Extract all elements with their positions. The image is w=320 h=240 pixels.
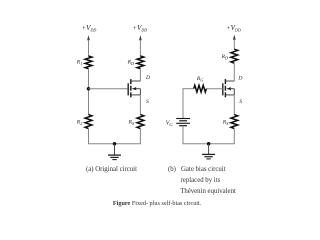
resistor RD (a) [137,56,144,69]
svg-text:D: D [145,75,150,81]
wire R1 to R2 [88,69,90,115]
svg-text:(b): (b) [168,166,176,173]
svg-text:RD: RD [127,59,134,66]
wire RS to rail [139,129,141,144]
svg-text:S: S [239,99,242,105]
svg-text:D: D [237,76,242,82]
svg-text:Thévenin equivalent: Thévenin equivalent [180,188,236,195]
transistor M2 [223,79,235,97]
resistor R1 [85,56,92,69]
svg-text:R1: R1 [76,59,83,66]
resistor RS (b) [231,115,238,129]
svg-text:RS: RS [222,119,229,126]
supply arrow (a) left [87,35,90,40]
wire bottom rail (a) [88,143,141,145]
svg-text:S: S [146,99,149,105]
supply arrow (b) [233,35,236,40]
svg-text:replaced by its: replaced by its [181,177,221,184]
supply arrow (a) right [139,35,142,40]
transistor M1 [128,79,140,97]
wire VG top [182,88,184,118]
wire drain (b) [233,63,235,81]
resistor RD (b) [231,49,238,63]
resistor RG [194,85,207,92]
svg-text:R2: R2 [76,119,83,126]
wire source (a) [139,95,141,115]
wire VG bottom [182,126,184,144]
svg-text:Gate bias circuit: Gate bias circuit [181,166,226,173]
svg-text:(a) Original circuit: (a) Original circuit [86,166,137,173]
svg-text:Figure Fixed- plus self-bias: Figure Fixed- plus self-bias circuit. [113,200,202,207]
resistor R2 [85,115,92,129]
wire drain (a) [139,69,141,81]
svg-text:RG: RG [196,76,203,83]
ground (b) [202,144,215,159]
node ground junction dot (b) [207,142,211,146]
wire gate [89,88,129,90]
ground (a) [108,144,121,160]
node gate junction dot (a) [87,87,91,91]
svg-text:RD: RD [221,54,228,61]
wire RG left [183,88,194,90]
battery VG [176,119,190,126]
wire source (b) [233,95,235,115]
wire RS to rail (b) [233,129,235,144]
svg-text:RS: RS [128,120,135,127]
wire bottom rail (b) [183,143,235,145]
resistor RS (a) [137,115,144,129]
node ground junction dot (a) [113,142,117,146]
wire R2 to rail [88,129,90,144]
wire gate (b) [206,88,222,90]
